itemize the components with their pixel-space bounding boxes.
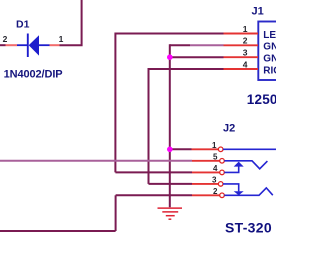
J2 pin 4 stub xyxy=(192,171,220,173)
svg-text:1: 1 xyxy=(212,141,217,150)
junction dot J1 pin3 xyxy=(167,54,173,60)
J2 contact pin2 line with peak xyxy=(224,188,272,195)
J2 pin 5 stub xyxy=(192,160,220,162)
wire J1 pin4 net vertical xyxy=(148,68,150,184)
wire J1 pin4 net horizontal xyxy=(149,68,224,70)
svg-text:1: 1 xyxy=(243,24,248,34)
svg-text:2: 2 xyxy=(243,36,248,46)
wire J2 pin2 net vertical xyxy=(115,195,117,231)
diode D1 cathode bar xyxy=(27,34,29,58)
wire J1 pin2/3 ground vertical xyxy=(169,44,171,207)
wire J1 pin1 net to J2 pin4 xyxy=(115,171,192,173)
J2 pin 3 stub xyxy=(192,183,218,185)
svg-text:2: 2 xyxy=(213,187,218,196)
J2 pin 4 circle xyxy=(220,170,225,175)
wire J1 pin2 net horizontal xyxy=(170,44,190,46)
wire J1 pin4 net to J2 pin3 xyxy=(149,183,193,185)
J2 pin4 arrowhead up xyxy=(234,162,244,167)
J2 contact pin4 line with up arrow xyxy=(224,166,238,172)
svg-text:125045: 125045 xyxy=(247,92,276,107)
diode D1 pin 2 end xyxy=(6,44,18,46)
wire diode net left lead xyxy=(0,44,6,46)
J1 pin 1 stub xyxy=(224,33,259,35)
svg-text:D1: D1 xyxy=(16,19,30,31)
diode D1 lead left xyxy=(17,44,28,46)
J2 pin 2 stub xyxy=(192,194,220,196)
wire J2 pin2 net horizontal xyxy=(116,194,192,196)
svg-text:LEFT: LEFT xyxy=(263,30,276,41)
ground symbol xyxy=(158,208,183,219)
diode D1 pin 1 end xyxy=(50,44,60,46)
J2 pin 5 circle xyxy=(220,159,225,164)
J2 pin3 arrowhead down xyxy=(234,191,244,195)
svg-text:J2: J2 xyxy=(223,122,235,134)
J2 contact pin1 sleeve line xyxy=(223,148,276,150)
J1 pin 4 stub xyxy=(224,68,259,70)
diode D1 triangle xyxy=(29,35,39,55)
junction dot J2 pin1 xyxy=(167,147,173,153)
svg-text:2: 2 xyxy=(3,34,8,44)
svg-text:5: 5 xyxy=(213,152,218,161)
J1 pin 2 stub xyxy=(224,44,259,46)
J2 pin 1 circle xyxy=(218,147,223,152)
wire J1 pin2 light segment xyxy=(190,44,224,46)
connector J1 body xyxy=(258,22,288,81)
wire diode net to top xyxy=(60,0,82,45)
svg-text:J1: J1 xyxy=(252,6,264,18)
svg-text:3: 3 xyxy=(243,48,248,58)
wire J1 pin1 net horizontal xyxy=(115,33,223,35)
wire J1 pin1 net vertical xyxy=(114,33,116,173)
wire ground branch to J2 pin1 xyxy=(170,148,192,150)
J2 pin 3 circle xyxy=(218,182,223,187)
svg-text:1N4002/DIP: 1N4002/DIP xyxy=(4,69,63,81)
J2 contact pin5 line with V notch xyxy=(224,161,267,169)
svg-text:GND: GND xyxy=(263,54,276,65)
svg-text:GND: GND xyxy=(263,42,276,53)
svg-text:ST-320: ST-320 xyxy=(225,219,272,235)
J2 pin 1 stub xyxy=(192,148,219,150)
svg-text:1: 1 xyxy=(59,34,64,44)
wire J2 pin5 net long horizontal xyxy=(0,160,192,162)
svg-text:4: 4 xyxy=(213,164,218,173)
svg-text:3: 3 xyxy=(212,176,217,185)
J2 contact pin3 line with down arrow xyxy=(223,184,239,192)
wire J1 pin3 net horizontal xyxy=(170,56,224,58)
svg-text:4: 4 xyxy=(243,59,248,69)
diode D1 lead right xyxy=(39,44,50,46)
J1 pin 3 stub xyxy=(224,56,259,58)
wire J2 pin2 net bottom horizontal xyxy=(0,230,116,232)
svg-text:RIGHT: RIGHT xyxy=(263,65,276,76)
J2 pin 2 circle xyxy=(220,193,225,198)
